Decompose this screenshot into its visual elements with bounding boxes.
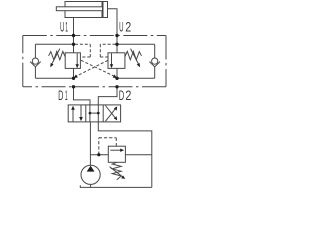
counterbalance valve right internal arrow xyxy=(111,53,113,64)
junction U2 rail xyxy=(115,43,118,46)
svg-text:U: U xyxy=(60,20,64,35)
svg-text:U: U xyxy=(119,20,123,35)
wire U1 to valve xyxy=(73,44,75,53)
directional valve centre cell xyxy=(89,105,91,122)
wire valve left bottom xyxy=(73,68,75,78)
wire bottom rail left xyxy=(35,77,73,79)
wire D2 to valve B xyxy=(98,87,117,105)
junction D2 rail xyxy=(115,77,118,80)
directional valve left cell arrows xyxy=(72,109,74,122)
wire top rail left xyxy=(35,43,73,45)
relief valve internal arrow xyxy=(110,149,121,151)
wire pump outlet xyxy=(90,184,92,187)
wire top rail right xyxy=(117,43,155,45)
pilot diagonal from right valve to left port (dashed) xyxy=(76,60,108,76)
directional valve body xyxy=(68,105,120,122)
junction D2 block xyxy=(115,85,118,88)
check valve right (ball) xyxy=(152,58,158,64)
wire left check branch lower xyxy=(34,67,36,79)
wire D1 to valve A xyxy=(74,87,91,105)
pump xyxy=(81,165,100,184)
adjust arrow right valve xyxy=(131,49,139,64)
svg-text:D: D xyxy=(119,88,125,103)
spring left valve xyxy=(49,51,66,59)
wire bottom rail right xyxy=(117,77,155,79)
counterbalance valve right body xyxy=(108,53,125,69)
counterbalance valve left internal arrow xyxy=(76,53,78,64)
wire left check branch upper xyxy=(34,44,36,58)
adjust arrow left valve xyxy=(52,49,60,64)
junction U2 block xyxy=(115,34,118,37)
directional valve right cell crossed arrows xyxy=(105,109,115,121)
wire relief outlet xyxy=(125,154,151,156)
junction relief pilot xyxy=(97,153,100,156)
svg-text:2: 2 xyxy=(125,88,131,103)
svg-text:1: 1 xyxy=(65,88,68,103)
check valve left (ball) xyxy=(32,58,38,64)
valve block dashed boundary xyxy=(23,36,166,87)
wire P line xyxy=(89,122,91,165)
relief pilot (dashed) xyxy=(99,138,117,155)
svg-text:2: 2 xyxy=(125,20,131,35)
junction D1 rail xyxy=(72,77,75,80)
wire U1 port xyxy=(73,18,75,45)
wire relief inlet xyxy=(90,154,108,156)
junction U1 block xyxy=(72,34,75,37)
check valve right seat xyxy=(149,62,160,67)
relief adjust arrow xyxy=(110,167,123,177)
svg-text:1: 1 xyxy=(65,20,68,35)
junction U1 rail xyxy=(72,43,75,46)
cylinder body xyxy=(65,2,108,18)
cylinder rod xyxy=(56,7,102,11)
relief valve spring xyxy=(112,162,121,180)
cylinder piston xyxy=(102,2,104,18)
counterbalance valve left body xyxy=(65,53,80,69)
wire right check branch upper xyxy=(154,44,156,58)
wire valve right bottom xyxy=(116,68,118,78)
check valve left seat xyxy=(30,62,41,67)
wire tank bottom rail xyxy=(80,185,152,187)
junction D1 block xyxy=(72,85,75,88)
wire U2 port xyxy=(108,9,118,45)
wire right check branch lower xyxy=(154,67,156,79)
svg-text:D: D xyxy=(58,88,63,103)
pilot diagonal from left valve to right port (dashed) xyxy=(81,60,115,76)
wire T line xyxy=(98,122,152,187)
wire U2 to valve xyxy=(116,44,118,53)
pilot line right valve (dashed) xyxy=(100,44,115,57)
spring right valve xyxy=(125,51,142,59)
pilot line left valve (dashed) xyxy=(75,44,90,57)
relief valve body xyxy=(108,146,125,162)
